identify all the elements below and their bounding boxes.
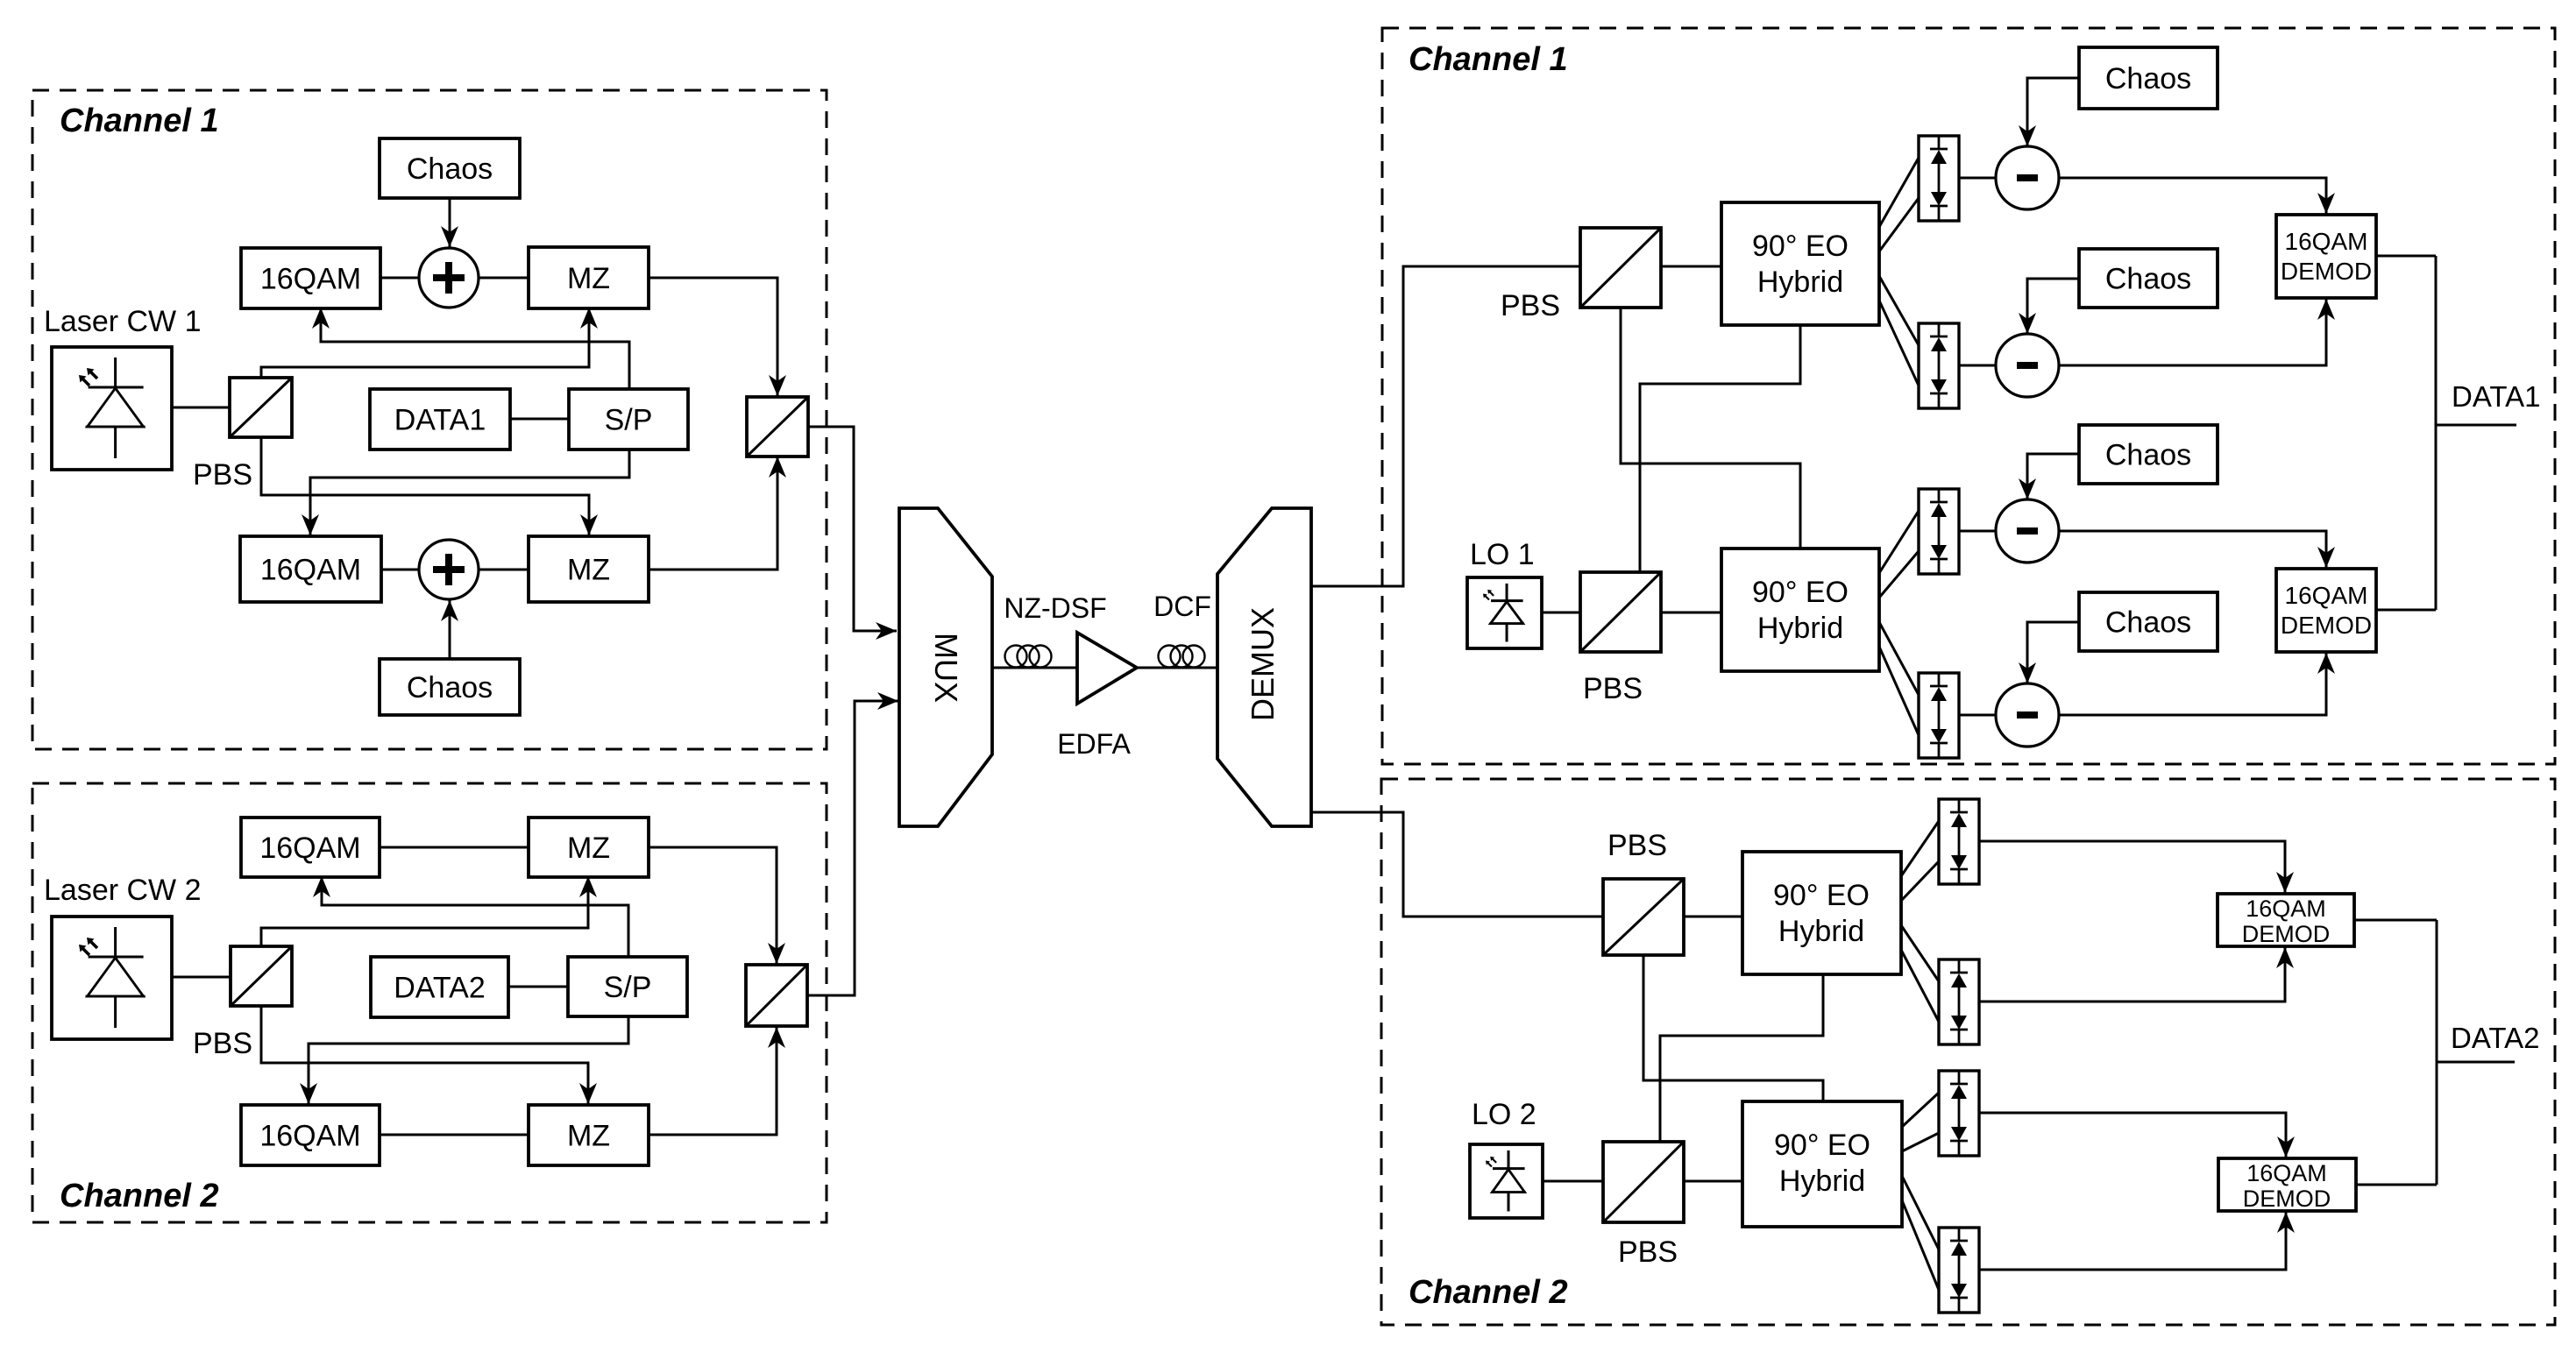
svg-text:MUX: MUX: [928, 633, 964, 703]
svg-text:Chaos: Chaos: [2105, 605, 2191, 639]
svg-text:Chaos: Chaos: [407, 152, 493, 186]
svg-text:Channel 2: Channel 2: [1409, 1274, 1568, 1311]
svg-text:LO 2: LO 2: [1472, 1098, 1536, 1131]
svg-text:DEMUX: DEMUX: [1245, 607, 1281, 721]
svg-text:DATA1: DATA1: [394, 403, 486, 436]
svg-text:MZ: MZ: [567, 553, 610, 586]
svg-text:90° EO: 90° EO: [1752, 576, 1849, 609]
svg-text:Laser CW 1: Laser CW 1: [44, 305, 202, 338]
svg-text:16QAM: 16QAM: [2285, 228, 2368, 255]
svg-text:DEMOD: DEMOD: [2242, 921, 2331, 947]
svg-text:Chaos: Chaos: [2105, 262, 2191, 295]
svg-text:PBS: PBS: [1501, 289, 1560, 322]
svg-text:16QAM: 16QAM: [260, 262, 361, 295]
svg-text:Hybrid: Hybrid: [1779, 1164, 1865, 1198]
svg-text:Hybrid: Hybrid: [1778, 915, 1864, 948]
svg-text:PBS: PBS: [1583, 672, 1643, 705]
svg-text:90° EO: 90° EO: [1773, 879, 1870, 912]
svg-text:16QAM: 16QAM: [259, 1119, 360, 1152]
svg-text:PBS: PBS: [1618, 1235, 1678, 1269]
svg-text:90° EO: 90° EO: [1752, 230, 1849, 263]
svg-text:NZ-DSF: NZ-DSF: [1004, 592, 1106, 624]
svg-text:DATA2: DATA2: [2451, 1022, 2539, 1054]
svg-text:Channel 1: Channel 1: [60, 103, 219, 139]
svg-text:EDFA: EDFA: [1057, 728, 1131, 760]
svg-text:MZ: MZ: [567, 1119, 610, 1152]
svg-text:Hybrid: Hybrid: [1757, 265, 1843, 299]
svg-text:16QAM: 16QAM: [259, 832, 360, 865]
svg-text:DATA1: DATA1: [2452, 380, 2540, 413]
svg-text:DEMOD: DEMOD: [2243, 1186, 2331, 1212]
svg-text:Chaos: Chaos: [2105, 62, 2191, 96]
svg-text:16QAM: 16QAM: [260, 553, 361, 586]
svg-text:Chaos: Chaos: [407, 671, 493, 704]
svg-text:PBS: PBS: [1607, 829, 1667, 862]
svg-text:Laser CW 2: Laser CW 2: [44, 874, 202, 907]
svg-text:DEMOD: DEMOD: [2281, 612, 2372, 639]
svg-text:90° EO: 90° EO: [1774, 1129, 1870, 1162]
svg-text:S/P: S/P: [605, 403, 653, 436]
svg-text:DEMOD: DEMOD: [2281, 258, 2372, 285]
svg-text:DCF: DCF: [1153, 591, 1211, 622]
svg-text:Channel 1: Channel 1: [1409, 41, 1568, 78]
svg-text:Chaos: Chaos: [2105, 438, 2191, 471]
svg-text:PBS: PBS: [193, 1027, 252, 1060]
svg-text:16QAM: 16QAM: [2246, 895, 2326, 922]
svg-text:LO 1: LO 1: [1470, 538, 1535, 571]
svg-text:Channel 2: Channel 2: [60, 1178, 219, 1214]
svg-text:DATA2: DATA2: [394, 971, 486, 1004]
svg-text:16QAM: 16QAM: [2285, 582, 2368, 609]
svg-text:PBS: PBS: [193, 458, 252, 492]
svg-text:Hybrid: Hybrid: [1757, 612, 1843, 645]
svg-text:S/P: S/P: [604, 971, 652, 1004]
svg-text:MZ: MZ: [567, 832, 610, 865]
svg-text:16QAM: 16QAM: [2246, 1160, 2327, 1186]
svg-text:MZ: MZ: [567, 262, 610, 295]
